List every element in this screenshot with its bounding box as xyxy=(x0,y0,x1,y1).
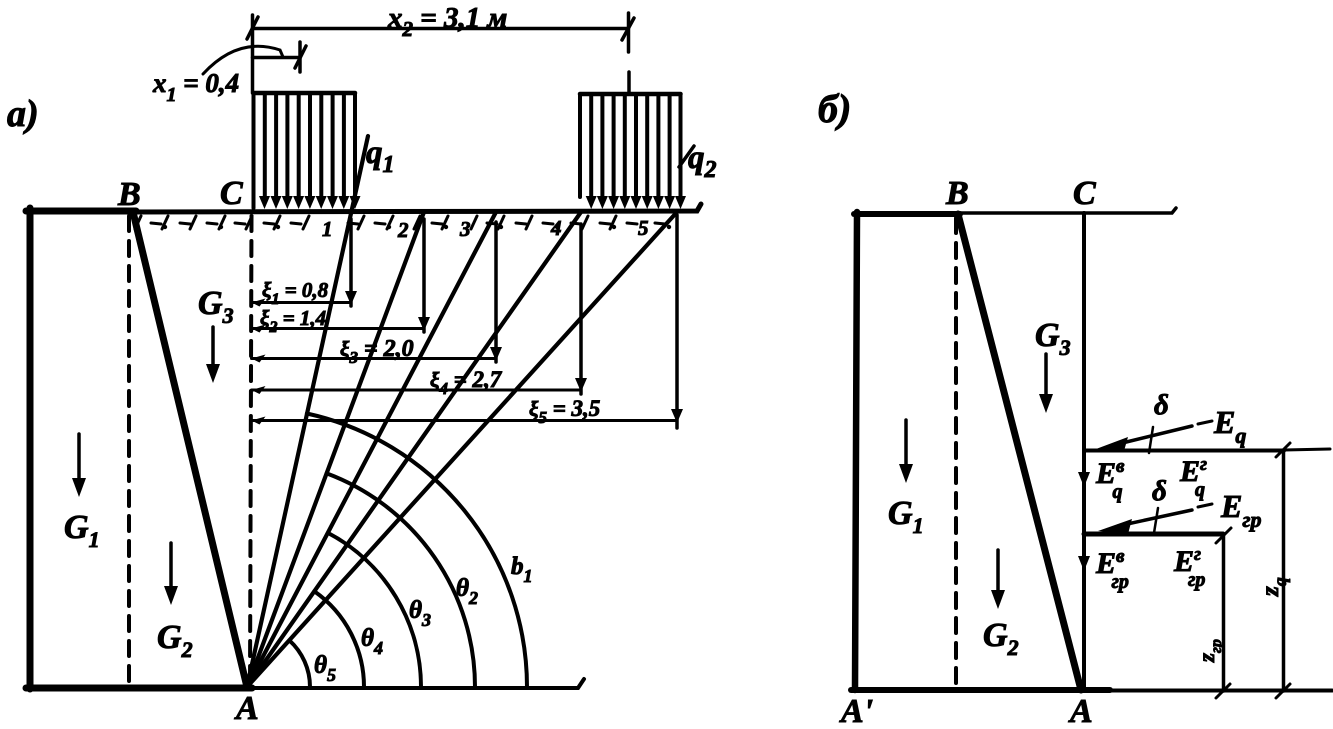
zgr bottom tick xyxy=(1216,684,1230,698)
Eq vertical component arrow xyxy=(1082,452,1086,474)
rupture line 5 xyxy=(247,212,677,687)
base line right of A xyxy=(252,679,584,688)
xi3 dimension row xyxy=(252,222,503,367)
wall back face B-A xyxy=(133,212,247,687)
svg-text:θ5: θ5 xyxy=(314,652,336,685)
svg-text:Eгр: Eгр xyxy=(1220,488,1261,532)
G2 arrow xyxy=(169,543,173,590)
q1 arrowheads xyxy=(259,196,361,209)
svg-text:Eгq: Eгq xyxy=(1179,454,1207,501)
soil hatching under surface xyxy=(135,216,671,229)
svg-text:δ: δ xyxy=(1152,475,1167,507)
G3 arrow xyxy=(211,327,215,368)
svg-text:q1: q1 xyxy=(366,135,395,178)
angle arc theta3 xyxy=(328,533,421,687)
svg-text:ξ4 = 2,7: ξ4 = 2,7 xyxy=(430,367,503,398)
xi5 dimension row xyxy=(252,215,684,428)
svg-text:B: B xyxy=(117,176,141,213)
G1 arrow xyxy=(77,434,81,482)
rupture line 4 xyxy=(247,212,581,687)
svg-text:G2: G2 xyxy=(157,619,193,662)
svg-text:Eвгр: Eвгр xyxy=(1095,546,1129,593)
x2 right reference line xyxy=(627,13,631,52)
wall2 left edge xyxy=(855,212,857,690)
svg-text:B: B xyxy=(945,175,969,212)
x1 dimension line xyxy=(253,56,301,60)
xi2 dimension row xyxy=(252,219,431,336)
Egr top line xyxy=(1084,532,1223,537)
Egr slanted arrow xyxy=(1118,510,1192,526)
x1 right tick xyxy=(295,46,306,68)
svg-text:G3: G3 xyxy=(198,285,234,328)
G1' arrow xyxy=(904,420,908,468)
svg-text:A': A' xyxy=(839,693,873,729)
svg-text:2: 2 xyxy=(397,218,409,242)
G2' arrow xyxy=(996,550,1000,594)
angle arc b1 xyxy=(307,414,527,688)
angle arc theta4 xyxy=(314,591,364,687)
q2 arrowheads xyxy=(586,196,686,209)
svg-text:Eвq: Eвq xyxy=(1095,456,1125,503)
svg-text:θ4: θ4 xyxy=(361,625,383,658)
Eq delta tick xyxy=(1149,427,1153,453)
svg-text:ξ3 = 2,0: ξ3 = 2,0 xyxy=(340,336,414,367)
rupture line 1 (A to q1 label) xyxy=(247,136,368,687)
wall2 back face B-A xyxy=(958,214,1081,690)
q2 leader stroke xyxy=(679,146,694,167)
svg-text:x1 = 0,4: x1 = 0,4 xyxy=(152,68,239,106)
svg-text:A: A xyxy=(1068,693,1093,729)
surface line 2 xyxy=(960,208,1176,213)
vertical plane C-A xyxy=(1082,213,1086,690)
x2 right tick xyxy=(622,18,634,40)
svg-text:5: 5 xyxy=(638,216,649,240)
leader curve from x1 label xyxy=(203,46,283,74)
wall left edge xyxy=(27,208,34,689)
svg-text:x2 = 3,1 м: x2 = 3,1 м xyxy=(387,2,507,41)
x2 left reference line xyxy=(251,15,255,93)
dashed line below B xyxy=(127,216,131,687)
dashed line below B2 xyxy=(954,218,958,688)
Eq dash leader xyxy=(1198,421,1212,424)
svg-text:ξ2 = 1,4: ξ2 = 1,4 xyxy=(260,306,326,336)
zq top tick xyxy=(1276,443,1290,457)
x1 right reference line xyxy=(298,42,302,72)
distributed load q2 xyxy=(580,94,681,197)
svg-text:б): б) xyxy=(818,86,851,131)
svg-text:C: C xyxy=(220,175,243,212)
angle arc theta5 xyxy=(289,640,310,687)
wall2 top edge xyxy=(854,211,960,217)
svg-text:Eq: Eq xyxy=(1213,404,1246,448)
svg-text:A: A xyxy=(234,690,259,727)
Eq top line extension xyxy=(1284,449,1330,450)
svg-text:G1: G1 xyxy=(64,509,100,552)
wall bottom edge thick xyxy=(26,685,252,692)
base line right of A2 xyxy=(1110,689,1332,693)
svg-text:1: 1 xyxy=(322,217,333,241)
xi4 dimension row xyxy=(252,224,588,398)
zq dimension line xyxy=(1282,450,1286,691)
svg-text:ξ5 = 3,5: ξ5 = 3,5 xyxy=(529,396,600,427)
distributed load q1 xyxy=(254,93,356,208)
G3' arrow xyxy=(1044,354,1048,398)
svg-text:G3: G3 xyxy=(1035,317,1071,360)
svg-text:θ3: θ3 xyxy=(409,597,431,630)
rupture line 2 xyxy=(247,212,424,687)
svg-text:q2: q2 xyxy=(688,140,717,183)
svg-text:4: 4 xyxy=(550,216,562,240)
svg-text:zгр: zгр xyxy=(1194,639,1225,663)
Egr dash leader xyxy=(1198,504,1212,507)
svg-text:G2: G2 xyxy=(983,617,1019,660)
Eq slanted arrow xyxy=(1110,426,1192,446)
svg-text:3: 3 xyxy=(459,217,471,241)
rupture line 3 xyxy=(247,212,496,687)
Egr corner tick xyxy=(1216,528,1231,543)
wall top edge xyxy=(26,208,136,215)
xi1 dimension row xyxy=(252,219,358,308)
Egr vertical component arrow xyxy=(1082,536,1086,558)
svg-text:C: C xyxy=(1073,175,1096,212)
svg-text:а): а) xyxy=(7,93,39,135)
zgr dimension line xyxy=(1222,534,1226,691)
svg-text:Eггр: Eггр xyxy=(1173,544,1205,591)
ground surface line xyxy=(133,204,701,212)
svg-text:G1: G1 xyxy=(888,495,924,538)
wall2 bottom edge xyxy=(851,687,1110,693)
Eq top line xyxy=(1084,449,1284,453)
svg-text:δ: δ xyxy=(1154,389,1169,421)
dashed line C-A xyxy=(250,216,252,685)
svg-text:b1: b1 xyxy=(511,553,533,586)
Egr delta tick xyxy=(1154,508,1158,533)
zq bottom tick xyxy=(1276,684,1290,698)
x2 left tick xyxy=(247,17,258,39)
x2 dimension line xyxy=(253,27,629,31)
q2 centre reference xyxy=(627,72,631,94)
angle arc theta2 xyxy=(327,473,475,687)
